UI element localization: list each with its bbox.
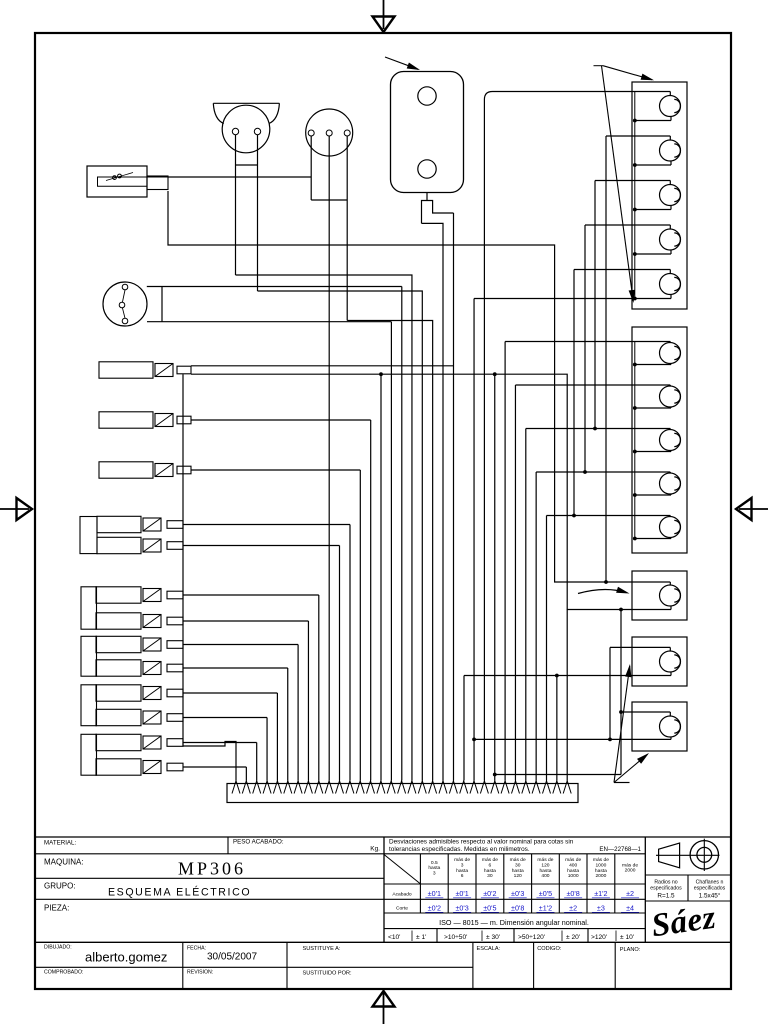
svg-text:>10÷50': >10÷50' [444,934,467,941]
svg-text:SUSTITUYE A:: SUSTITUYE A: [303,946,341,952]
svg-text:<10': <10' [388,934,400,941]
svg-text:6: 6 [461,873,464,879]
svg-text:Corte: Corte [396,906,408,912]
svg-text:3: 3 [461,863,464,869]
svg-text:1.5x45°: 1.5x45° [699,892,721,900]
svg-text:±0'2: ±0'2 [483,889,496,898]
svg-text:COMPROBADO:: COMPROBADO: [44,970,84,976]
svg-text:>50÷120': >50÷120' [518,934,545,941]
svg-text:±0'1: ±0'1 [455,889,468,898]
svg-text:DIBUJADO:: DIBUJADO: [44,945,72,951]
svg-text:±0'5: ±0'5 [539,889,552,898]
svg-text:PIEZA:: PIEZA: [44,904,69,913]
svg-text:± 10': ± 10' [620,934,634,941]
svg-text:hasta: hasta [428,865,440,871]
svg-text:PESO ACABADO:: PESO ACABADO: [233,839,284,846]
svg-text:hasta: hasta [567,868,579,874]
svg-text:PLANO:: PLANO: [620,947,641,953]
svg-text:hasta: hasta [539,868,551,874]
svg-text:± 20': ± 20' [566,934,580,941]
svg-text:Desviaciones admisibles resp: Desviaciones admisibles respecto al valo… [389,838,574,845]
svg-text:FECHA:: FECHA: [187,946,206,952]
svg-text:más de: más de [622,862,638,868]
svg-text:6: 6 [489,863,492,869]
svg-text:más de: más de [537,857,553,863]
svg-text:3: 3 [433,870,436,876]
svg-text:Kg.: Kg. [370,846,380,853]
svg-text:0.5: 0.5 [431,860,438,866]
svg-text:tolerancias especificadas. M: tolerancias especificadas. Medidas en mi… [389,846,530,853]
svg-text:>120': >120' [591,934,607,941]
svg-text:30/05/2007: 30/05/2007 [207,952,257,963]
svg-text:2000: 2000 [595,873,606,879]
svg-text:±1'2: ±1'2 [594,889,607,898]
svg-text:hasta: hasta [456,868,468,874]
svg-text:MP306: MP306 [178,859,246,879]
svg-text:± 30': ± 30' [486,934,500,941]
svg-text:±2: ±2 [569,904,577,913]
svg-text:especificados: especificados [694,886,726,892]
svg-text:hasta: hasta [512,868,524,874]
svg-text:120: 120 [541,863,549,869]
svg-text:±0'3: ±0'3 [511,889,524,898]
svg-text:alberto.gomez: alberto.gomez [85,950,167,965]
svg-text:MAQUINA:: MAQUINA: [44,858,84,867]
svg-text:más de: más de [510,857,526,863]
svg-text:120: 120 [514,873,522,879]
svg-text:especificados: especificados [650,886,682,892]
svg-text:2000: 2000 [625,868,636,874]
svg-text:ISO — 8015 — m. Dimensión: ISO — 8015 — m. Dimensión angular nomina… [439,918,589,927]
svg-text:± 1': ± 1' [416,934,426,941]
svg-text:±0'3: ±0'3 [455,904,468,913]
svg-text:30: 30 [515,863,521,869]
svg-text:más de: más de [565,857,581,863]
svg-text:Acabado: Acabado [392,892,412,898]
svg-text:±3: ±3 [597,904,605,913]
svg-text:±1'2: ±1'2 [539,904,552,913]
svg-text:SUSTITUIDO POR:: SUSTITUIDO POR: [303,971,353,977]
svg-text:400: 400 [569,863,577,869]
svg-text:GRUPO:: GRUPO: [44,882,76,891]
svg-text:1000: 1000 [568,873,579,879]
svg-text:R=1.5: R=1.5 [657,893,675,900]
svg-text:±0'5: ±0'5 [483,904,496,913]
svg-text:±2: ±2 [626,889,634,898]
svg-text:±0'8: ±0'8 [566,889,579,898]
svg-text:±0'2: ±0'2 [428,904,441,913]
svg-text:ESQUEMA ELÉCTRICO: ESQUEMA ELÉCTRICO [108,886,251,899]
svg-text:REVISION:: REVISION: [187,970,213,976]
svg-text:ESCALA:: ESCALA: [477,946,501,952]
svg-text:400: 400 [541,873,549,879]
svg-text:MATERIAL:: MATERIAL: [44,840,76,847]
svg-text:EN—22768—1: EN—22768—1 [599,846,641,853]
svg-text:±0'1: ±0'1 [428,889,441,898]
svg-text:±0'8: ±0'8 [511,904,524,913]
svg-text:más de: más de [482,857,498,863]
svg-text:hasta: hasta [484,868,496,874]
svg-text:más de: más de [593,857,609,863]
svg-text:más de: más de [454,857,470,863]
svg-text:1000: 1000 [595,863,606,869]
svg-text:CODIGO:: CODIGO: [537,946,562,952]
svg-text:hasta: hasta [595,868,607,874]
svg-text:±4: ±4 [626,904,634,913]
svg-text:30: 30 [487,873,493,879]
